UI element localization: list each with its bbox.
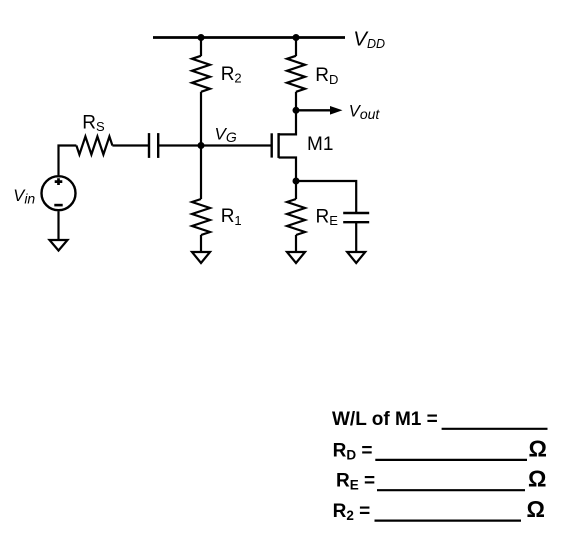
wire VG node to R1 bbox=[200, 146, 202, 200]
wire RD to vout node bbox=[295, 92, 297, 111]
capacitor coupling left plate bbox=[148, 133, 150, 158]
transistor M1 gate bar bbox=[271, 133, 273, 157]
plus sign vin bbox=[55, 178, 63, 185]
node junction rail-RD bbox=[293, 34, 300, 41]
wire source node to bypass cap bbox=[296, 181, 356, 213]
capacitor coupling right plate bbox=[157, 133, 159, 158]
wire R2 to node VG bbox=[200, 92, 202, 146]
resistor R1 bbox=[192, 199, 210, 235]
wire drain lead M1 bbox=[279, 110, 296, 134]
wire coupling cap to node VG bbox=[158, 144, 201, 146]
wire vin to RS bbox=[59, 146, 77, 176]
ground under R1 bbox=[192, 252, 210, 263]
svg-text:W/L of M1 =: W/L of M1 = bbox=[332, 409, 438, 430]
capacitor CE top plate bbox=[343, 212, 369, 214]
svg-text:Ω: Ω bbox=[528, 466, 546, 492]
wire RE to ground bbox=[295, 235, 297, 252]
resistor RS bbox=[76, 137, 112, 155]
wire R1 to ground bbox=[200, 235, 202, 252]
resistor RD bbox=[287, 56, 305, 92]
svg-text:M1: M1 bbox=[307, 134, 333, 155]
node source M1 bbox=[293, 178, 300, 185]
minus sign vin bbox=[54, 204, 62, 207]
wire vin to ground bbox=[57, 211, 59, 240]
arrowhead vout bbox=[330, 106, 343, 115]
svg-text:Ω: Ω bbox=[527, 496, 545, 522]
source vin circle bbox=[42, 176, 76, 210]
svg-text:Vin: Vin bbox=[13, 187, 35, 207]
wire source node to RE bbox=[295, 181, 297, 199]
resistor RE bbox=[287, 199, 305, 235]
ground under RE bbox=[287, 252, 305, 263]
svg-text:Ω: Ω bbox=[529, 435, 547, 461]
resistor R2 bbox=[192, 56, 210, 92]
node VG bbox=[198, 142, 205, 149]
capacitor CE bottom plate bbox=[343, 221, 369, 223]
wire RS to coupling cap bbox=[112, 144, 149, 146]
ground under CE bbox=[347, 252, 365, 263]
wire VDD rail bbox=[153, 36, 345, 39]
node vout bbox=[293, 107, 300, 114]
wire rail to R2 bbox=[200, 38, 202, 57]
wire rail to RD bbox=[295, 38, 297, 57]
wire vout arrow shaft bbox=[296, 109, 331, 111]
transistor M1 channel bar bbox=[277, 133, 279, 158]
wire CE to ground bbox=[355, 222, 357, 252]
wire gate from node VG bbox=[201, 144, 272, 146]
ground under vin bbox=[50, 240, 68, 251]
node junction rail-R2 bbox=[198, 34, 205, 41]
svg-text:Vout: Vout bbox=[349, 103, 381, 122]
wire source lead M1 bbox=[279, 158, 296, 182]
